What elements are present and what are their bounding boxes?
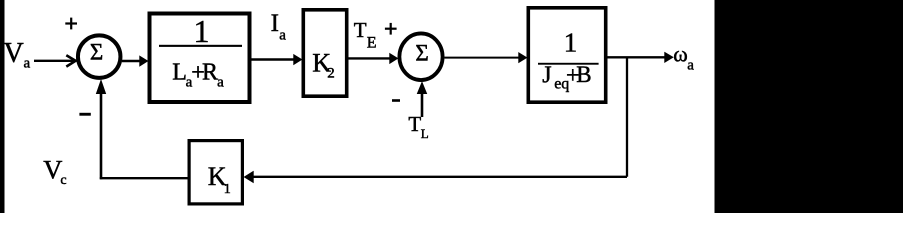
wire block1 to K2 [252,55,302,65]
plus sign of summing junction S2 [385,23,397,35]
block K2 [303,10,346,96]
fraction bar of block2 [538,63,599,65]
plus sign of summing junction S1 [65,18,77,30]
label K2 [312,49,335,82]
svg-text:1: 1 [194,13,210,49]
wire block2 output to omega arrow [608,53,673,63]
svg-text:Σ: Σ [415,41,428,66]
svg-text:a: a [24,55,31,71]
svg-text:J: J [542,63,551,89]
fraction bar of block1 [159,45,242,47]
svg-text:Σ: Σ [90,40,103,65]
denominator La+Ra of block1 [172,59,224,90]
label K1 [208,162,231,197]
svg-text:a: a [687,58,694,74]
svg-text:1: 1 [564,28,578,58]
right black panel [715,0,903,213]
svg-text:T: T [408,112,421,136]
minus sign of TL input [392,99,400,102]
node Vc label [43,154,66,188]
block K1 [189,141,242,204]
wire TL input arrow [418,83,427,118]
svg-text:I: I [271,10,279,37]
minus sign of feedback into S1 [79,113,90,116]
denominator Jeq+B of block2 [542,62,591,92]
wire feedback bottom right segment [245,172,628,183]
svg-text:2: 2 [327,65,335,81]
block1 1/(La+Ra) [150,14,250,103]
svg-text:a: a [279,28,286,44]
svg-text:L: L [421,126,429,141]
wire S1 to block1 [122,56,148,66]
node omega_a label [673,42,694,74]
node Ia label [271,10,287,44]
svg-text:B: B [576,62,591,87]
svg-text:E: E [367,35,377,52]
summing junction S1 [78,35,121,78]
wire K2 to S2 [349,54,398,64]
svg-text:1: 1 [224,182,231,197]
node Va label [4,38,31,71]
wire S2 to block2 [445,53,527,63]
left black border bar [0,0,5,213]
summing junction S2 [399,33,442,80]
wire Va input arrow [34,55,76,66]
svg-text:R: R [202,59,218,85]
wire feedback tap vertical [626,57,628,177]
node TL label [408,112,428,141]
svg-text:a: a [217,75,224,91]
wire feedback vertical up into S1 [97,81,106,180]
node TE label [354,18,377,52]
svg-text:T: T [354,18,367,42]
wire feedback bottom left segment [100,177,188,179]
svg-text:V: V [4,38,24,69]
svg-text:c: c [60,173,66,188]
svg-text:ω: ω [673,42,687,67]
block2 1/(Jeq+B) [528,8,605,102]
